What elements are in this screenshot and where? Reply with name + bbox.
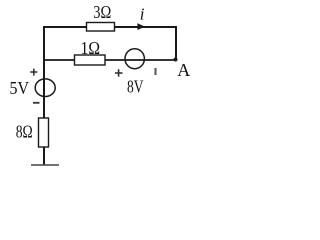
voltage source 5V circle [35,79,55,97]
wire left vertical lower [43,147,45,165]
svg-text:1Ω: 1Ω [81,38,101,58]
resistor 1Ω [75,55,106,65]
wire top-left segment [44,26,87,28]
junction dot [174,58,178,62]
svg-text:i: i [140,5,145,24]
wire middle-right segment [105,59,176,61]
svg-text:8V: 8V [127,76,144,96]
svg-text:8Ω: 8Ω [16,122,33,142]
wire top-right segment [114,26,177,28]
minus sign of 5V [33,102,40,104]
svg-text:5V: 5V [10,78,30,98]
voltage source 8V circle [125,49,144,69]
wire left vertical upper [43,26,45,118]
ground [31,164,59,166]
wire middle-left segment [44,59,75,61]
wire right vertical [175,26,177,60]
svg-text:3Ω: 3Ω [93,2,111,22]
resistor 8Ω [39,118,49,147]
current arrow [137,23,145,30]
svg-text:A: A [177,60,190,80]
resistor 3Ω [87,23,115,32]
plus sign of 8V [115,69,123,77]
plus sign of 5V [30,69,37,76]
minus tick of 8V [155,68,157,75]
